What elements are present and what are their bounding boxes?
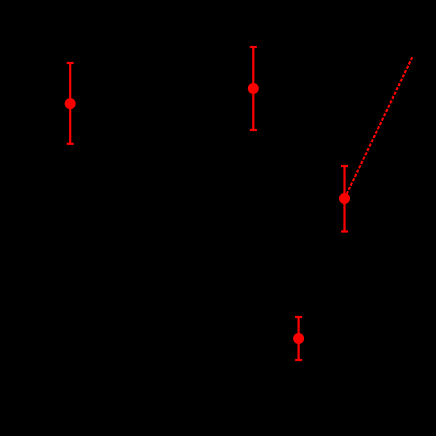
data point 2 xyxy=(248,83,259,94)
data point 4 xyxy=(293,333,304,344)
error bar of data point 2 xyxy=(250,47,257,130)
data point 1 xyxy=(65,98,76,109)
error bar of data point 4 xyxy=(295,317,302,360)
data point 3 xyxy=(339,193,350,204)
dashed fit line xyxy=(345,56,413,198)
error bar of data point 3 xyxy=(341,166,348,232)
error bar of data point 1 xyxy=(67,63,74,144)
